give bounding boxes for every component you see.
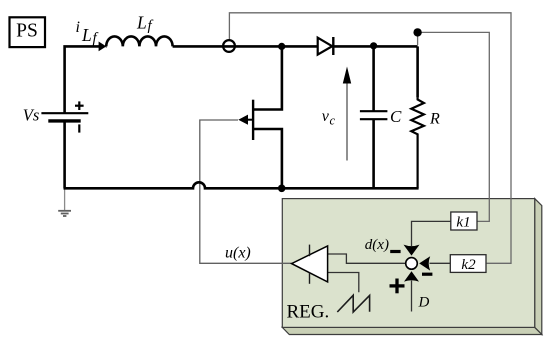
svg-text:i: i	[76, 19, 80, 36]
svg-text:k1: k1	[456, 215, 470, 231]
svg-text:D: D	[418, 295, 430, 311]
svg-text:L: L	[136, 13, 147, 33]
svg-text:Vs: Vs	[23, 106, 40, 125]
svg-text:R: R	[429, 111, 440, 128]
svg-text:u(x): u(x)	[225, 245, 251, 262]
svg-text:d(x): d(x)	[365, 237, 389, 253]
svg-text:k2: k2	[461, 257, 476, 273]
svg-text:REG.: REG.	[287, 301, 330, 322]
svg-text:PS: PS	[16, 21, 38, 42]
svg-text:L: L	[81, 25, 92, 45]
svg-text:c: c	[330, 114, 336, 128]
svg-text:C: C	[390, 107, 402, 126]
